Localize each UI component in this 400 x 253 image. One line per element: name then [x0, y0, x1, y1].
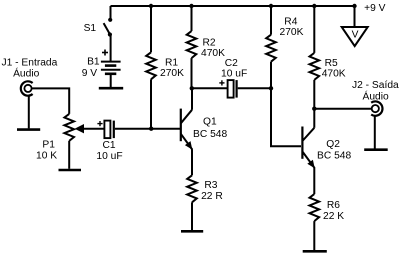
svg-text:R4: R4 [284, 16, 297, 27]
svg-text:BC 548: BC 548 [193, 129, 227, 140]
node junction R2 top [189, 4, 193, 8]
svg-text:10 K: 10 K [36, 151, 57, 162]
svg-text:470K: 470K [322, 68, 346, 79]
svg-text:BC 548: BC 548 [317, 151, 351, 162]
switch S1 [104, 6, 113, 37]
node junction Q1 collector [190, 86, 194, 90]
svg-text:470K: 470K [201, 48, 225, 59]
wire top power rail [111, 5, 355, 7]
capacitor C2 [228, 80, 237, 98]
ground under R6 [303, 250, 327, 253]
svg-text:22 K: 22 K [323, 211, 344, 222]
resistor R4 [266, 6, 276, 88]
svg-text:22 R: 22 R [201, 191, 223, 202]
C2 plus sign [219, 80, 224, 85]
svg-text:Q2: Q2 [326, 139, 340, 150]
svg-text:Áudio: Áudio [363, 90, 390, 103]
wire C1 to Q1 base [115, 128, 180, 130]
wire collector node to C2 [192, 87, 228, 89]
svg-text:270K: 270K [160, 68, 184, 79]
svg-text:Áudio: Áudio [13, 67, 40, 80]
C1 plus sign [97, 121, 102, 126]
wire C2 to R4 node [238, 87, 271, 89]
svg-text:J1 - Entrada: J1 - Entrada [2, 57, 58, 68]
node junction C2 R4 [269, 86, 273, 90]
node junction Q2 collector [312, 107, 316, 111]
svg-text:S1: S1 [84, 23, 97, 34]
node junction R1 top [149, 4, 153, 8]
svg-text:R1: R1 [165, 57, 178, 68]
ground under J2 [364, 148, 388, 151]
wire B1 to ground [110, 74, 112, 87]
node junction R1 bottom [149, 127, 153, 131]
wire R4 node to Q2 base [271, 88, 301, 146]
node junction +9V [352, 4, 356, 8]
transistor Q2 [302, 109, 314, 194]
wire S1 to B1 [110, 35, 112, 62]
svg-text:9 V: 9 V [82, 68, 98, 79]
resistor R6 [310, 194, 320, 250]
resistor R2 [187, 6, 197, 88]
ground under R3 [181, 230, 203, 233]
transistor Q1 [181, 88, 193, 175]
ground under B1 [99, 87, 123, 90]
node junction R5 top [312, 4, 316, 8]
svg-text:C2: C2 [225, 58, 238, 69]
svg-text:R3: R3 [204, 180, 217, 191]
potentiometer P1 [64, 114, 104, 141]
svg-text:R6: R6 [327, 200, 340, 211]
wire Q2 collector to J2 [314, 108, 372, 110]
wire J1 ground stub [28, 96, 30, 129]
node junction R4 top [269, 4, 273, 8]
svg-text:V: V [352, 30, 359, 41]
svg-text:Q1: Q1 [203, 117, 217, 128]
wire to supply symbol [354, 6, 356, 27]
supply symbol V triangle [342, 27, 368, 46]
svg-text:10 uF: 10 uF [96, 151, 122, 162]
svg-text:270K: 270K [280, 27, 304, 38]
resistor R1 [146, 6, 156, 129]
ground under P1 [59, 169, 82, 172]
resistor R3 [187, 175, 197, 230]
wire J1 to P1 [32, 88, 70, 114]
resistor R5 [310, 6, 320, 109]
jack J1 [21, 81, 33, 95]
svg-text:J2 - Saída: J2 - Saída [352, 80, 399, 91]
wire P1 to ground [68, 141, 70, 169]
svg-text:C1: C1 [103, 140, 116, 151]
battery B1 [101, 62, 121, 74]
svg-text:10 uF: 10 uF [221, 69, 247, 80]
jack J2 [371, 101, 382, 115]
capacitor C1 [104, 121, 113, 139]
ground under J1 [17, 128, 40, 131]
svg-text:+9 V: +9 V [364, 3, 386, 14]
svg-text:R2: R2 [203, 38, 216, 49]
svg-text:B1: B1 [87, 57, 100, 68]
wire J2 ground stub [374, 116, 376, 149]
battery plus sign [102, 50, 108, 56]
svg-text:P1: P1 [42, 140, 55, 151]
